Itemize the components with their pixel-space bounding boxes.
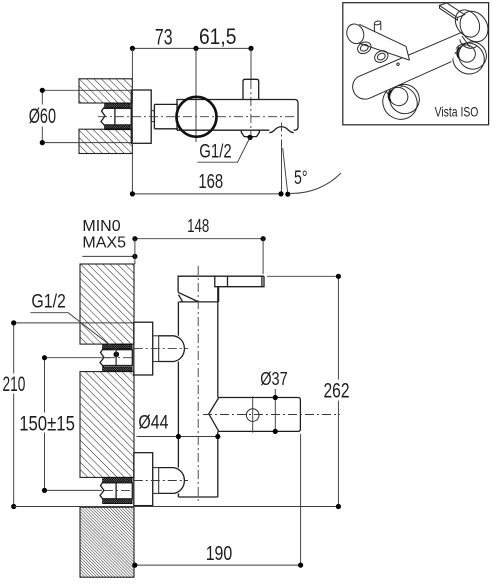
spout wave cut-out — [269, 127, 293, 133]
box frame — [343, 3, 489, 125]
mixer body (side) — [177, 100, 298, 131]
dimension O44 — [137, 412, 221, 439]
outlet G1/2 (bottom of body) — [241, 130, 259, 136]
lower pipe end in wall — [116, 483, 132, 499]
extension line handle centre — [195, 48, 197, 142]
lower fitting centreline — [134, 480, 188, 482]
extension line wall face upper — [134, 239, 136, 264]
iso small screw dot — [397, 63, 399, 65]
TOP VIEW (plan view of mixer) — [27, 24, 341, 197]
5 degree tilted line — [283, 148, 288, 194]
svg-text:Vista ISO: Vista ISO — [435, 103, 479, 119]
dimension 262 — [267, 274, 354, 509]
column centreline — [197, 266, 199, 503]
ISO VIEW BOX — [343, 3, 494, 126]
upper pipe break zigzag — [100, 349, 104, 367]
svg-text:210: 210 — [3, 373, 26, 396]
svg-text:MAX5: MAX5 — [82, 235, 126, 252]
dimension O60 — [27, 88, 131, 145]
upper ring — [153, 336, 159, 362]
upper pipe end in wall — [116, 350, 132, 366]
dimension 168 — [130, 171, 291, 197]
svg-text:190: 190 — [206, 543, 233, 565]
svg-text:262: 262 — [324, 380, 350, 403]
svg-text:5°: 5° — [294, 168, 308, 189]
spout centreline — [281, 123, 283, 141]
wall hatch upper block — [79, 79, 132, 103]
lower wall-pipe centreline — [104, 489, 134, 491]
angle arc 5 degrees — [290, 168, 342, 193]
seal bottom-upper — [103, 477, 133, 482]
iso body cylinder — [344, 22, 409, 61]
dimension 148 — [132, 215, 265, 241]
escutcheon (side view) — [131, 90, 151, 143]
svg-text:Ø37: Ø37 — [260, 368, 288, 389]
svg-text:Ø44: Ø44 — [138, 412, 168, 433]
ring at escutcheon exit — [151, 111, 154, 122]
upper wall-pipe centreline — [106, 357, 134, 359]
temperature lever — [215, 276, 264, 287]
svg-text:G1/2: G1/2 — [31, 291, 66, 313]
top cap and spout — [178, 276, 264, 302]
lower ring — [153, 468, 159, 494]
connecting pipe — [154, 104, 178, 128]
pipe walls in wall — [104, 108, 115, 125]
body axis centreline — [98, 116, 296, 118]
iso outlet ring 2 — [373, 49, 390, 65]
note MIN0 / MAX5 — [82, 218, 137, 259]
LOWER VIEW (front elevation of mixer) — [1, 215, 354, 577]
wall hatch block 2 — [80, 372, 134, 478]
svg-text:168: 168 — [198, 171, 223, 193]
iso lever blade — [440, 3, 465, 20]
iso column cylinder — [353, 32, 462, 99]
wall hatch block 1 — [80, 264, 134, 344]
dimension 150+-15 — [17, 355, 110, 493]
upper union dome — [159, 336, 185, 362]
seal top-lower — [103, 367, 133, 371]
lower union dome — [159, 468, 185, 494]
pipe break zigzag — [101, 107, 105, 125]
handle centreline — [203, 414, 340, 416]
column body — [178, 287, 217, 497]
seal top-upper — [103, 344, 133, 349]
handle (front view) — [209, 396, 301, 432]
svg-text:148: 148 — [187, 215, 209, 236]
svg-text:G1/2: G1/2 — [199, 141, 231, 163]
extension line lever end — [262, 239, 264, 274]
diverter centreline — [250, 80, 252, 140]
extension line wall face — [131, 48, 133, 194]
iso diverter stub — [374, 20, 381, 31]
wall hatch lower block — [79, 129, 132, 153]
svg-text:61,5: 61,5 — [199, 24, 236, 49]
dimension 210 — [1, 320, 134, 509]
iso outlet ring 1 — [356, 40, 373, 56]
bottom reference line — [14, 506, 339, 508]
lower pipe walls in wall — [103, 483, 117, 499]
diverter knob — [243, 79, 259, 99]
extension line handle end — [300, 434, 302, 565]
lower pipe break zigzag — [100, 482, 104, 500]
dimension line 73 / 61,5 — [130, 24, 254, 51]
upper pipe walls in wall — [103, 350, 117, 366]
svg-text:Ø60: Ø60 — [29, 105, 56, 128]
dimension O37 — [260, 368, 288, 434]
seal upper (side view) — [105, 103, 130, 108]
iso right knob — [450, 5, 493, 48]
extension line diverter centre — [250, 48, 252, 79]
lower escutcheon — [134, 453, 153, 506]
svg-text:73: 73 — [155, 25, 173, 50]
seal lower (side view) — [105, 125, 130, 130]
pipe end in wall — [115, 108, 131, 125]
svg-text:MIN0: MIN0 — [82, 218, 120, 235]
seal bottom-lower — [103, 499, 133, 504]
leader G1/2 — [197, 135, 252, 163]
wall hatch block 3 — [80, 507, 134, 577]
upper escutcheon — [134, 322, 153, 375]
dimension 190 — [132, 543, 303, 568]
iso escutcheon disc 2 — [447, 36, 492, 80]
svg-text:150±15: 150±15 — [19, 413, 75, 436]
leader G1/2 lower view — [30, 291, 119, 365]
handle knob circle — [177, 97, 217, 137]
upper fitting centreline — [134, 348, 188, 350]
iso escutcheon disc 1 — [376, 76, 424, 126]
